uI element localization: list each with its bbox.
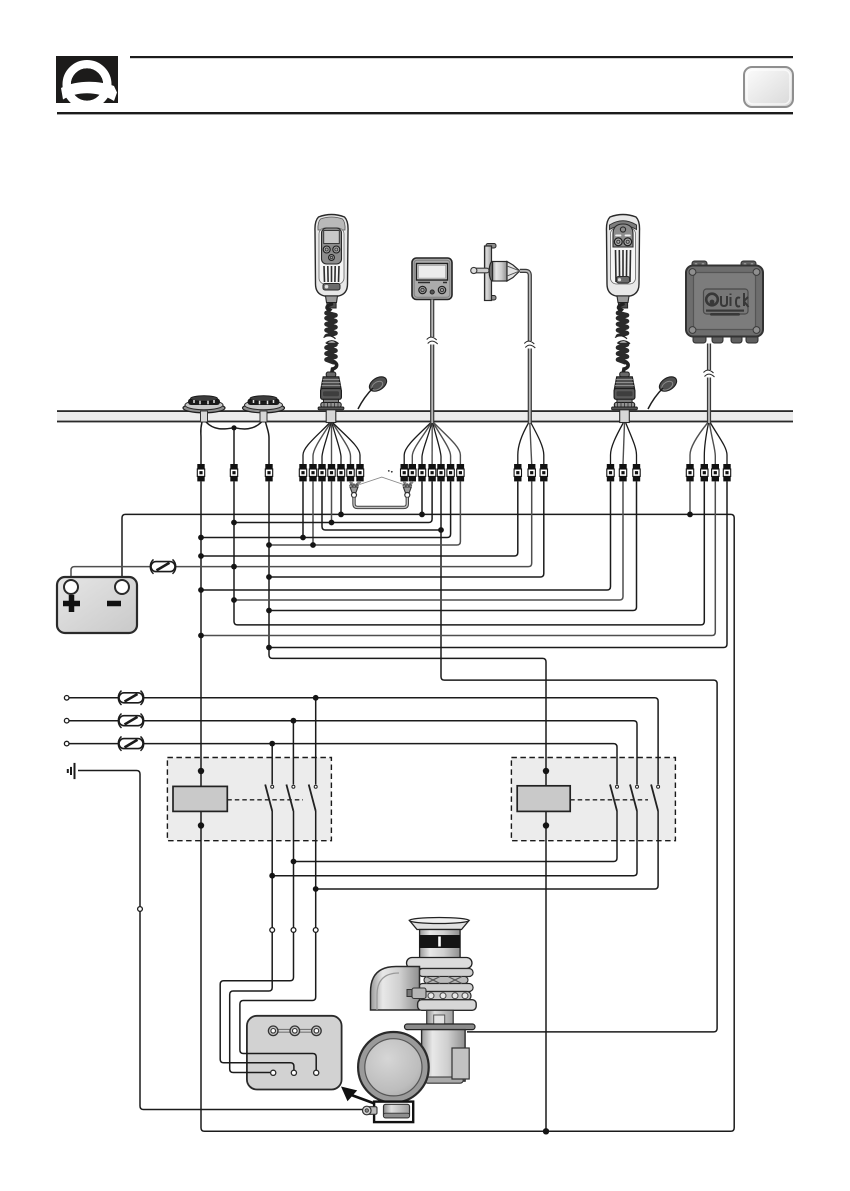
cross link y=875.7: [272, 811, 637, 876]
jumper loop assembly: [350, 470, 413, 507]
wire: foot switch 2 right leg: [266, 422, 270, 464]
bus line y=647.5: [269, 481, 727, 647]
battery fuse: [150, 559, 175, 573]
connector: toggle pin 3: [540, 464, 547, 481]
stem: [427, 1010, 454, 1024]
motor terminal box terminals: [268, 1026, 321, 1075]
ground symbol: [68, 763, 75, 779]
remote 2 plug cap: [648, 374, 679, 409]
remote 1 coiled cable: [322, 304, 342, 374]
relay1 contact top stubs: [272, 698, 316, 785]
header rule top: [130, 56, 793, 58]
remote 2 coiled cable: [613, 304, 633, 374]
connector: remote 2 pin 3: [633, 464, 640, 481]
bus line y=600: [234, 481, 623, 600]
wire: foot switch 2 riser, line y=658.4 down to relay 2 coil and bottom bus: [269, 481, 546, 1131]
fused line A y=697.8: [69, 698, 658, 785]
base plate: [418, 1000, 477, 1011]
remote control 2: [606, 215, 639, 309]
wire: mid junction down: [233, 428, 235, 464]
relay box 2 outline: [511, 758, 675, 841]
wire: counter pin5 long run to windlass motor: [441, 481, 717, 1032]
capstan top flare: [410, 921, 470, 930]
stripper clamp: [407, 990, 414, 997]
header rule bottom: [57, 112, 793, 114]
wire: foot switch 1 right leg to mid junction: [206, 422, 233, 429]
connector: counter pin 6: [447, 464, 454, 481]
toggle pin wires: [518, 423, 529, 464]
fused line B y=720.7: [69, 721, 637, 785]
ground wire: [78, 771, 366, 1110]
bus line y=537.5: [201, 481, 451, 537]
connector: counter pin 1: [401, 464, 408, 481]
battery: [57, 577, 137, 633]
connector: foot switch 1: [197, 464, 204, 481]
motor: [358, 1032, 429, 1103]
connector: control box pin 2: [701, 464, 708, 481]
wire: switch-junction riser down, bus line y=624.9 to control box wire: [234, 481, 704, 625]
Quick logo box: [56, 56, 118, 105]
connector: control box pin 4: [723, 464, 730, 481]
cross link y=861.5: [294, 811, 618, 862]
toggle switch assembly: [471, 244, 520, 301]
bus line y=545: [269, 481, 460, 545]
page number button: [744, 67, 793, 107]
drum: [420, 930, 461, 959]
connector: remote 1 pin 2: [309, 464, 316, 481]
remote control 1: [315, 215, 348, 309]
remote2 pin wires: [611, 423, 624, 464]
chain counter display: [412, 258, 452, 300]
connector: remote 1 pin 4: [328, 464, 335, 481]
connector: remote 1 pin 5: [337, 464, 344, 481]
fused line C y=743.6: [69, 744, 617, 785]
control box cable: [704, 344, 715, 424]
chain counter cable: [427, 300, 438, 424]
remote 1 deck plug: [318, 372, 344, 423]
remote 2 deck plug: [612, 372, 638, 423]
drum base disc: [407, 958, 473, 969]
lower housing: [422, 1030, 466, 1082]
connector: counter pin 7: [457, 464, 464, 481]
gearbox: [452, 1048, 469, 1079]
relay box 1 outline: [167, 758, 331, 841]
foot switch 1: [183, 396, 225, 422]
bus line y=590: [201, 481, 611, 590]
negative battery loop: battery - up, bus right, down right side, bottom bus to relay coil 1: [122, 481, 734, 1131]
open terminal circles: [64, 696, 318, 933]
gypsy chainwheel: [419, 969, 474, 977]
foot switch 2: [243, 396, 285, 422]
remote 1 plug cap: [358, 374, 389, 409]
wire: remote1 pin3 drop, bus line y=530: [322, 481, 441, 530]
wire: remote1 pin4 drop to bus 522.5: [331, 481, 333, 522]
bus line y=522.5: [234, 481, 432, 522]
connector: remote 2 pin 2: [619, 464, 626, 481]
deck band: [57, 411, 793, 422]
wire: counter pin3 drop to negative bus: [421, 481, 423, 514]
toggle switch cable: [520, 271, 536, 423]
battery + line y=566.6: [71, 481, 532, 580]
pointer arrow: [341, 1087, 357, 1102]
motor terminal highlight box: [374, 1102, 413, 1123]
control box pin wires: [690, 423, 708, 464]
connector: remote 1 pin 6: [347, 464, 354, 481]
motor terminal bolt: [363, 1106, 378, 1115]
fuse line B: [118, 714, 143, 728]
wire: remote1 pin5 drop to negative bus: [340, 481, 342, 514]
connector: toggle pin 2: [528, 464, 535, 481]
control ground drop: [689, 481, 691, 514]
relay1 contact bottoms with terminals: [230, 811, 273, 1073]
connector: counter pin 5: [437, 464, 444, 481]
remote1 pin wires: [303, 423, 330, 464]
connector: remote 1 pin 7: [356, 464, 363, 481]
wire: remote1 pin2 drop to bus 545: [312, 481, 314, 545]
deck flange: [405, 1024, 476, 1030]
wire: foot switch 2 left leg to mid junction: [235, 422, 262, 429]
chain guard: [371, 967, 420, 1011]
bus line y=635.5: [201, 481, 715, 635]
relay box 1: [173, 785, 317, 812]
bus line y=577: [269, 481, 544, 577]
connector: foot switches common: [230, 464, 237, 481]
connector: control box pin 3: [712, 464, 719, 481]
connector: remote 1 pin 1: [299, 464, 306, 481]
motor terminal box body: [247, 1016, 342, 1090]
bus line y=610.5: [269, 481, 637, 610]
connector: toggle pin 1: [514, 464, 521, 481]
windlass: [341, 918, 476, 1123]
connector: counter pin 3: [418, 464, 425, 481]
connector: counter pin 4: [428, 464, 435, 481]
control box: [686, 261, 763, 343]
relay box 2: [517, 785, 659, 812]
fuse line C: [118, 736, 143, 750]
connector: control box pin 1: [686, 464, 693, 481]
connector: foot switch 2: [265, 464, 272, 481]
counter pin wires: [404, 423, 430, 464]
wire: foot switch 1 left leg: [201, 422, 202, 464]
connector: remote 2 pin 1: [607, 464, 614, 481]
connector: remote 1 pin 3: [318, 464, 325, 481]
cross link y=889: [316, 811, 658, 889]
wire: remote1 pin1 drop to bus 537.5: [302, 481, 304, 537]
bus line y=556: [201, 481, 518, 556]
connector: counter pin 2: [409, 464, 416, 481]
fuse line A: [118, 691, 143, 705]
